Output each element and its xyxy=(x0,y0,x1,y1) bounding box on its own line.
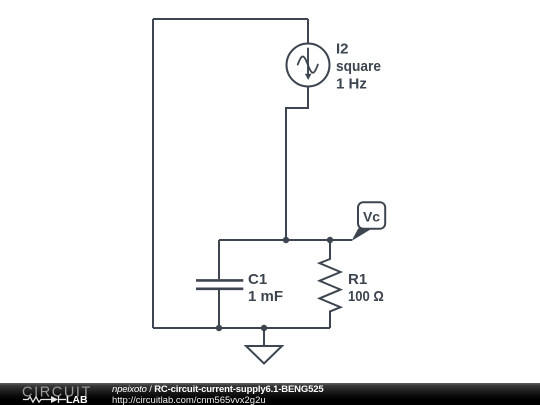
svg-text:1 Hz: 1 Hz xyxy=(336,76,367,93)
wire bottom horizontal xyxy=(153,327,330,329)
ground xyxy=(246,328,282,364)
wire I2 bottom lead with jog xyxy=(286,87,308,241)
wire top horizontal xyxy=(153,18,308,20)
node junction capacitor bottom xyxy=(216,325,222,331)
node junction at x286 on middle wire xyxy=(283,237,289,243)
voltmeter flag Vc pointer wedge xyxy=(352,228,372,241)
current source I2 xyxy=(287,44,330,87)
wire left vertical xyxy=(152,19,154,328)
svg-text:Vc: Vc xyxy=(363,209,380,225)
node junction at resistor top xyxy=(327,237,333,243)
resistor R1 xyxy=(320,240,341,328)
capacitor C1 xyxy=(196,240,243,328)
svg-text:R1: R1 xyxy=(348,271,367,288)
label C1 value xyxy=(248,271,283,305)
node junction ground xyxy=(261,325,267,331)
wire I2 top lead xyxy=(307,19,309,44)
footer bar xyxy=(0,383,540,405)
svg-text:1 mF: 1 mF xyxy=(248,288,283,305)
svg-text:LAB: LAB xyxy=(66,394,88,405)
svg-text:square: square xyxy=(336,58,381,75)
wire middle horizontal xyxy=(219,239,352,241)
voltmeter flag Vc box xyxy=(358,202,385,228)
svg-text:100 Ω: 100 Ω xyxy=(348,288,384,305)
label I2 value xyxy=(336,41,381,93)
footer text line 2 xyxy=(112,395,266,405)
label R1 value xyxy=(348,271,384,305)
svg-text:C1: C1 xyxy=(248,271,267,288)
CircuitLab logo xyxy=(0,383,100,405)
footer text line 1 xyxy=(112,384,324,395)
svg-text:I2: I2 xyxy=(336,41,349,58)
